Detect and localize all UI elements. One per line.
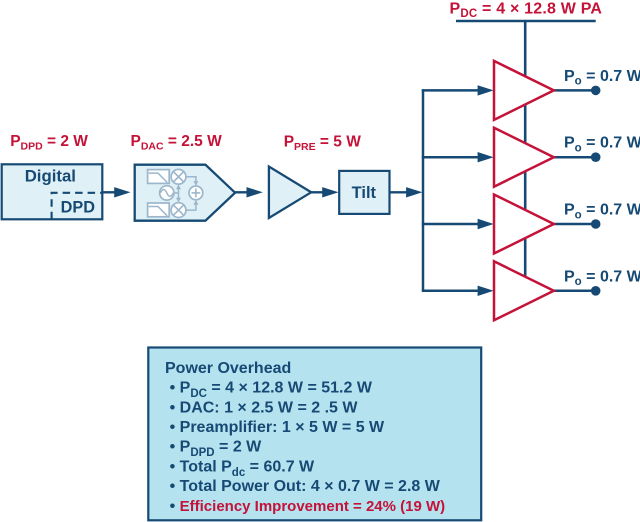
DAC osc wires xyxy=(174,184,181,202)
DC bus bar xyxy=(456,20,596,22)
preamp A1 xyxy=(269,167,311,219)
wire output 3 xyxy=(554,219,601,229)
amplifier PA2 xyxy=(494,128,554,187)
wire output 2 xyxy=(554,152,601,162)
svg-text:Po = 0.7 W: Po = 0.7 W xyxy=(564,135,640,155)
svg-text:PPRE = 5 W: PPRE = 5 W xyxy=(284,133,362,152)
block Tilt xyxy=(339,171,389,214)
svg-text:DPD: DPD xyxy=(61,198,96,216)
DC supply wire xyxy=(524,21,527,291)
DAC filter 2 xyxy=(148,203,170,217)
info box Power Overhead xyxy=(148,348,481,521)
wire branch 3 xyxy=(422,219,494,229)
svg-text:PDC = 4 × 12.8 W PA: PDC = 4 × 12.8 W PA xyxy=(450,1,603,21)
DAC oscillator xyxy=(160,186,174,200)
svg-text:• DAC: 1 × 2.5 W = 2 .5 W: • DAC: 1 × 2.5 W = 2 .5 W xyxy=(170,399,359,416)
wire preamp to Tilt xyxy=(311,187,338,197)
dashed DPD sub-block xyxy=(52,193,103,220)
svg-text:Tilt: Tilt xyxy=(352,184,377,202)
splitter bus wire xyxy=(422,89,425,291)
svg-text:• Efficiency Improvement = 24%: • Efficiency Improvement = 24% (19 W) xyxy=(170,498,446,515)
svg-text:Po = 0.7 W: Po = 0.7 W xyxy=(564,68,640,88)
svg-text:PDAC = 2.5 W: PDAC = 2.5 W xyxy=(131,133,223,152)
DAC filter 1 xyxy=(148,170,170,184)
svg-text:PDPD = 2 W: PDPD = 2 W xyxy=(10,133,88,152)
DAC mixer2 to summer wire xyxy=(186,200,199,210)
wire DAC to preamp xyxy=(235,187,263,197)
DAC mixer 2 xyxy=(171,203,186,218)
wire Tilt to splitter xyxy=(390,187,423,197)
wire branch 2 xyxy=(422,152,494,162)
DAC block U1 xyxy=(135,165,235,221)
DAC summer xyxy=(189,186,203,200)
svg-text:• Total Power Out: 4 × 0.7 W =: • Total Power Out: 4 × 0.7 W = 2.8 W xyxy=(170,478,441,495)
wire branch 4 xyxy=(422,286,494,296)
svg-text:Digital: Digital xyxy=(25,167,76,186)
wire output 4 xyxy=(554,286,601,296)
amplifier PA4 xyxy=(494,261,554,320)
wire branch 1 xyxy=(422,85,494,95)
svg-text:• Preamplifier: 1 × 5 W = 5 W: • Preamplifier: 1 × 5 W = 5 W xyxy=(170,419,385,436)
amplifier PA1 xyxy=(494,61,554,120)
DAC mixer1 to summer wire xyxy=(186,177,199,186)
svg-text:Po = 0.7 W: Po = 0.7 W xyxy=(564,202,640,222)
block Digital xyxy=(2,164,103,219)
DAC mixer 1 xyxy=(171,169,186,184)
svg-text:Po = 0.7 W: Po = 0.7 W xyxy=(564,268,640,288)
wire output 1 xyxy=(554,86,601,96)
svg-text:Power Overhead: Power Overhead xyxy=(165,360,291,377)
amplifier PA3 xyxy=(494,195,554,254)
wire Digital to DAC xyxy=(102,187,130,197)
